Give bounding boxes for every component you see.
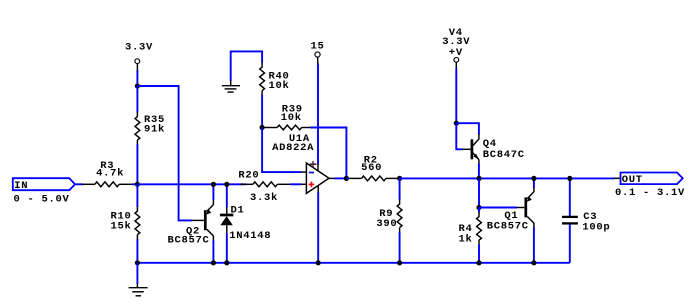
resistor R20 bbox=[240, 182, 290, 187]
svg-text:0.1 - 3.1V: 0.1 - 3.1V bbox=[615, 187, 685, 199]
transistor Q4 (NPN) bbox=[463, 134, 479, 165]
wire main row node A to Q2/D1 bbox=[137, 183, 246, 185]
wire op-amp output to node bbox=[335, 177, 349, 179]
junction bus / D1 anode bbox=[224, 260, 229, 265]
svg-text:15: 15 bbox=[311, 41, 325, 53]
svg-text:0 - 5.0V: 0 - 5.0V bbox=[14, 194, 70, 206]
wire out rail to R4/Q1 base node bbox=[478, 178, 480, 207]
ground (bottom) bbox=[129, 284, 148, 296]
resistor R3 bbox=[82, 182, 132, 187]
junction V4 / Q4 base+collector bbox=[454, 121, 459, 126]
junction bus / Q2 collector bbox=[211, 260, 216, 265]
junction bus / R10 ground bbox=[135, 260, 140, 265]
junction bus / R4 bbox=[476, 260, 481, 265]
wire V4 node to Q4 base bbox=[456, 123, 463, 149]
svg-text:D1: D1 bbox=[231, 205, 245, 217]
junction R40 / R39 / inverting input bbox=[260, 125, 265, 130]
svg-text:15k: 15k bbox=[111, 221, 132, 233]
transistor Q1 (PNP) bbox=[517, 178, 534, 262]
wire V4 node to Q4 collector bbox=[456, 123, 479, 134]
svg-text:3.3V: 3.3V bbox=[125, 42, 153, 54]
svg-text:10k: 10k bbox=[281, 112, 302, 124]
wire base node to Q1 base bbox=[479, 207, 517, 209]
wire R20 to op-amp + input bbox=[290, 183, 302, 185]
wire V4 stem bbox=[455, 62, 457, 69]
junction C3 / out rail bbox=[567, 176, 572, 181]
resistor R39 bbox=[264, 125, 310, 130]
junction Q1 emitter / out rail bbox=[531, 176, 536, 181]
wire out rail R2 to C3 bbox=[400, 177, 615, 179]
svg-text:1k: 1k bbox=[459, 234, 473, 246]
ground bus wire bbox=[137, 262, 569, 264]
wire bus to bottom ground bbox=[136, 263, 138, 284]
svg-text:390: 390 bbox=[376, 218, 397, 230]
wire 3.3V node to Q2 base bbox=[137, 86, 192, 220]
terminal V4 3.3V +V bbox=[442, 27, 470, 62]
resistor R9 bbox=[397, 178, 402, 262]
svg-text:IN: IN bbox=[14, 180, 28, 192]
resistor R4 bbox=[477, 208, 482, 263]
capacitor C3 bbox=[562, 178, 578, 262]
terminal OUT port bbox=[614, 173, 683, 187]
wire 15 to op-amp V+ bbox=[317, 57, 319, 64]
junction bus / op-amp V- bbox=[316, 260, 321, 265]
wire IN tip to R3 bbox=[76, 183, 83, 185]
op-amp U1A AD822A bbox=[301, 161, 335, 193]
svg-text:3.3k: 3.3k bbox=[250, 192, 278, 204]
svg-text:BC857C: BC857C bbox=[168, 235, 210, 247]
svg-text:BC857C: BC857C bbox=[487, 221, 529, 233]
wire op-amp V- to bus bbox=[317, 192, 319, 263]
resistor R2 bbox=[346, 176, 399, 181]
ground (top, R40) bbox=[222, 81, 240, 93]
transistor Q2 (PNP) bbox=[192, 184, 214, 262]
wire Q4 emitter to out rail bbox=[478, 164, 480, 179]
junction R2 / R9 / out rail bbox=[397, 176, 402, 181]
resistor R35 bbox=[135, 86, 140, 184]
wire top ground to R40 top bbox=[231, 51, 262, 81]
wire R39 to feedback drop bbox=[310, 128, 346, 179]
junction Q4 emitter / out rail bbox=[476, 176, 481, 181]
junction bus / R9 bbox=[397, 260, 402, 265]
resistor R40 bbox=[260, 62, 265, 127]
diode D1 bbox=[220, 184, 233, 262]
svg-text:R20: R20 bbox=[238, 170, 259, 182]
svg-text:1N4148: 1N4148 bbox=[229, 230, 271, 242]
terminal 3.3V power bbox=[125, 42, 153, 64]
svg-text:BC847C: BC847C bbox=[483, 149, 525, 161]
svg-text:100p: 100p bbox=[582, 222, 610, 234]
junction output / feedback bbox=[344, 176, 349, 181]
svg-text:3.3V: 3.3V bbox=[442, 36, 470, 48]
junction bus / Q1 collector bbox=[531, 260, 536, 265]
junction 3.3V / R35 / base feed bbox=[135, 83, 140, 88]
wire R3 to node A bbox=[132, 183, 137, 185]
junction D1 / main row bbox=[224, 182, 229, 187]
junction node A (R3/R35/R10/main) bbox=[135, 182, 140, 187]
svg-text:OUT: OUT bbox=[622, 174, 643, 186]
junction Q2 emitter / main row bbox=[211, 182, 216, 187]
svg-text:10k: 10k bbox=[269, 80, 290, 92]
wire 3.3V stem bbox=[136, 64, 138, 71]
terminal 15 bbox=[311, 41, 325, 58]
terminal IN port bbox=[13, 178, 75, 192]
wire junction to op-amp - input bbox=[262, 128, 301, 173]
svg-text:91k: 91k bbox=[144, 124, 165, 136]
svg-text:AD822A: AD822A bbox=[272, 142, 314, 154]
junction R4 / Q1 base bbox=[476, 205, 481, 210]
svg-text:560: 560 bbox=[361, 162, 382, 174]
svg-text:4.7k: 4.7k bbox=[96, 168, 124, 180]
resistor R10 bbox=[135, 184, 140, 262]
